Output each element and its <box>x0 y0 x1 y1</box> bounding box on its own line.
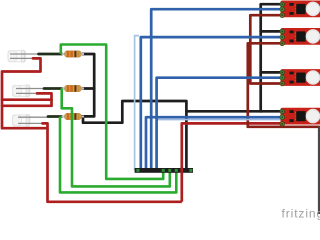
wire red bar B <box>2 104 52 107</box>
edge border line <box>318 127 320 215</box>
wire red board4 VCC to rail <box>182 123 281 201</box>
wire red header crossing <box>180 167 183 173</box>
wire green LED3 cathode <box>60 117 176 193</box>
resistor R3 <box>62 113 85 119</box>
sensor board U4 <box>280 108 320 126</box>
wire dark-red board2 VCC riser <box>248 43 281 127</box>
sensor board U2 <box>280 28 320 46</box>
wire blue board1 signal <box>151 9 280 169</box>
wire green LED2 cathode <box>62 89 170 187</box>
wire black resistor chain R1-R2-R3 <box>81 54 94 116</box>
wire light-blue riser <box>135 36 139 170</box>
wire black R2 output to chain <box>83 87 95 90</box>
wire black row2 LED to resistor <box>44 87 63 90</box>
wire black board2 GND stub <box>261 30 281 33</box>
wire blue board2 signal <box>141 37 281 169</box>
wire black row3 LED to resistor <box>48 115 62 118</box>
header pin strip <box>135 168 193 173</box>
wire red bottom rail and right riser <box>48 128 182 202</box>
wire black row1 LED to resistor <box>39 53 63 56</box>
wire red LED2 anode elbow <box>37 93 52 105</box>
LED LED3 <box>13 114 51 126</box>
wire blue board3 signal <box>157 78 281 169</box>
wire red bar A <box>2 98 52 101</box>
wire dark-red under board4 <box>248 125 319 128</box>
wire dark-red board1 to board3 VCC <box>250 15 280 83</box>
wire blue board4 signal <box>146 117 281 169</box>
wire black chain to header GND pin <box>83 101 186 169</box>
wire black header to board4 GND <box>186 110 280 113</box>
sensor board U3 <box>280 69 320 86</box>
LED LED2 <box>13 85 45 97</box>
LED LED1 <box>8 50 39 62</box>
wire green LED1 cathode loop <box>61 45 163 179</box>
wire black board3 GND stub <box>261 71 281 74</box>
svg-text:fritzing: fritzing <box>282 207 320 221</box>
wire light-blue board4 parallel <box>158 119 281 121</box>
wire black boards GND chain <box>261 4 281 111</box>
resistor R2 <box>62 85 85 91</box>
wire red LED1 anode rail down left side <box>2 58 48 128</box>
sensor board U1 <box>280 1 320 18</box>
resistor R1 <box>62 51 85 57</box>
